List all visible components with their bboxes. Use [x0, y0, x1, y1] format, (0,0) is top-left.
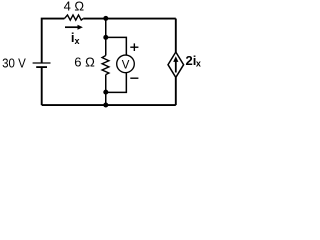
wire voltmeter bottom lead [106, 73, 126, 93]
wire right rail lower [175, 77, 177, 105]
polarity plus sign [130, 43, 138, 51]
resistor R1 4 ohm (zigzag on top rail) [64, 15, 83, 20]
node junction dot voltmeter minus tap [103, 90, 108, 95]
node junction dot top rail [103, 16, 108, 21]
node junction dot bottom rail [103, 103, 108, 108]
current arrow ix [65, 25, 83, 30]
polarity minus sign [130, 77, 138, 79]
svg-text:4 Ω: 4 Ω [64, 0, 85, 14]
resistor R2 6 ohm (vertical zigzag) [102, 56, 109, 75]
svg-text:V: V [122, 60, 130, 72]
wire voltmeter top lead [106, 37, 126, 55]
wire right rail upper [175, 19, 177, 52]
wire middle branch lower [105, 75, 107, 106]
node junction dot voltmeter plus tap [103, 35, 108, 40]
wire top rail left segment and left rail upper [42, 19, 65, 63]
wire middle branch upper [105, 19, 107, 56]
voltage source V1 30V battery long plate [33, 62, 51, 64]
svg-text:6 Ω: 6 Ω [74, 55, 95, 70]
voltmeter U1 (circle) [117, 55, 135, 73]
voltage source V1 30V battery short plate [36, 66, 47, 68]
wire top rail right segment [83, 18, 176, 20]
dependent current source I1 (diamond) [168, 52, 184, 77]
svg-text:30 V: 30 V [2, 56, 26, 71]
wire bottom rail [42, 104, 176, 106]
current source arrow up [173, 56, 178, 72]
wire left rail lower [41, 67, 43, 105]
